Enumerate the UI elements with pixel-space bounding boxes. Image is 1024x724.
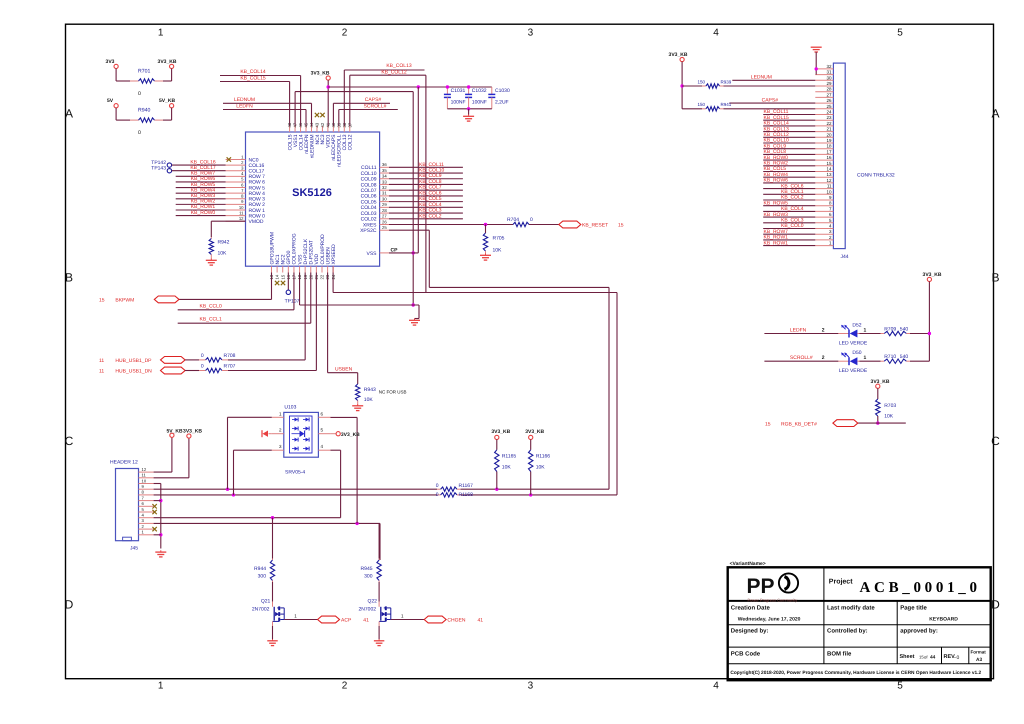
svg-text:KB_ROW5: KB_ROW5 — [764, 200, 789, 206]
svg-text:KB_COL9: KB_COL9 — [764, 143, 787, 149]
svg-text:34: 34 — [382, 174, 387, 179]
svg-text:Q21: Q21 — [261, 599, 271, 605]
svg-text:KB_COL4: KB_COL4 — [781, 206, 804, 212]
svg-text:4: 4 — [713, 681, 719, 692]
svg-text:BKPWM: BKPWM — [115, 297, 134, 303]
svg-text:17: 17 — [826, 149, 832, 154]
svg-text:R942: R942 — [218, 240, 230, 246]
svg-text:36: 36 — [382, 162, 387, 167]
svg-text:KB_ROW2: KB_ROW2 — [764, 161, 789, 167]
svg-text:14: 14 — [826, 167, 832, 172]
svg-text:5V_KB: 5V_KB — [159, 98, 176, 104]
svg-text:R701: R701 — [138, 69, 151, 75]
svg-text:26: 26 — [382, 219, 387, 224]
svg-text:1: 1 — [158, 681, 164, 692]
svg-text:11: 11 — [99, 358, 104, 364]
svg-text:R704: R704 — [507, 217, 519, 223]
svg-text:KB_ROW3: KB_ROW3 — [764, 212, 789, 218]
svg-text:35: 35 — [382, 168, 387, 173]
svg-text:5: 5 — [897, 681, 903, 692]
svg-text:B: B — [65, 271, 73, 285]
svg-text:Format: Format — [971, 650, 987, 655]
svg-text:5V: 5V — [107, 98, 114, 104]
svg-text:KB_COL8: KB_COL8 — [764, 149, 787, 155]
svg-text:SK5126: SK5126 — [292, 187, 332, 199]
svg-text:23: 23 — [826, 115, 832, 120]
svg-text:KB_ROW1: KB_ROW1 — [764, 240, 789, 246]
svg-text:ACP: ACP — [341, 618, 352, 624]
svg-text:0: 0 — [201, 364, 204, 370]
svg-text:25: 25 — [382, 225, 387, 230]
svg-text:R705: R705 — [493, 236, 505, 242]
svg-text:PCB Code: PCB Code — [731, 651, 761, 658]
svg-text:32: 32 — [826, 64, 832, 69]
svg-text:10K: 10K — [502, 465, 512, 471]
svg-text:ACB_0001_0: ACB_0001_0 — [860, 580, 981, 596]
svg-text:R943: R943 — [364, 387, 376, 393]
svg-text:TP143: TP143 — [151, 166, 166, 172]
svg-text:R939: R939 — [721, 79, 732, 84]
svg-text:12: 12 — [142, 467, 147, 472]
svg-text:J44: J44 — [841, 254, 849, 260]
svg-text:300: 300 — [364, 574, 373, 580]
svg-text:Controlled by:: Controlled by: — [827, 628, 868, 635]
svg-text:10: 10 — [142, 478, 147, 483]
svg-text:12: 12 — [826, 178, 832, 183]
svg-text:R703: R703 — [884, 403, 896, 409]
svg-text:Copyright(C) 2018-2020, Power: Copyright(C) 2018-2020, Power Progress C… — [730, 670, 981, 676]
svg-text:LEDFN: LEDFN — [790, 327, 807, 333]
svg-text:15: 15 — [99, 297, 105, 303]
svg-text:KB_COL5: KB_COL5 — [764, 166, 787, 172]
svg-text:CONN TRBLK32: CONN TRBLK32 — [857, 173, 895, 179]
svg-text:KB_COL14: KB_COL14 — [764, 121, 790, 127]
svg-text:KB_ROW4: KB_ROW4 — [764, 172, 789, 178]
svg-text:0: 0 — [138, 91, 141, 97]
svg-text:TP107: TP107 — [285, 299, 300, 305]
svg-text:540: 540 — [900, 326, 909, 332]
svg-text:RGB_KB_DET#: RGB_KB_DET# — [781, 421, 817, 427]
svg-text:10K: 10K — [218, 251, 228, 257]
svg-text:100NF: 100NF — [472, 99, 487, 105]
svg-text:R1166: R1166 — [536, 454, 551, 460]
svg-text:42: 42 — [320, 122, 325, 127]
svg-text:28: 28 — [382, 208, 387, 213]
svg-text:KEYBOARD: KEYBOARD — [929, 617, 958, 623]
svg-text:KB_COL13: KB_COL13 — [386, 63, 412, 69]
svg-text:HUB_USB1_DP: HUB_USB1_DP — [115, 358, 152, 364]
svg-text:3V3_KB: 3V3_KB — [525, 429, 544, 435]
svg-text:2: 2 — [342, 681, 348, 692]
svg-text:3V3: 3V3 — [106, 59, 115, 65]
svg-text:25: 25 — [826, 104, 832, 109]
svg-text:1: 1 — [864, 355, 867, 361]
svg-text:HUB_USB1_DN: HUB_USB1_DN — [115, 369, 152, 375]
svg-text:5: 5 — [897, 28, 903, 39]
svg-text:A3: A3 — [976, 657, 982, 663]
svg-text:R945: R945 — [361, 566, 373, 572]
svg-text:C: C — [991, 434, 1000, 448]
svg-text:3V3_KB: 3V3_KB — [183, 429, 202, 435]
svg-text:41: 41 — [478, 618, 484, 624]
svg-text:Power Progress Community: Power Progress Community — [748, 597, 798, 602]
svg-text:21: 21 — [826, 127, 832, 132]
svg-text:16: 16 — [826, 155, 832, 160]
svg-text:0: 0 — [530, 217, 533, 223]
svg-text:SCROLL#: SCROLL# — [364, 103, 387, 109]
svg-text:KB_CCL1: KB_CCL1 — [200, 317, 222, 323]
svg-text:15: 15 — [765, 421, 771, 427]
svg-text:20: 20 — [826, 132, 832, 137]
svg-text:10K: 10K — [884, 414, 894, 420]
svg-text:14: 14 — [275, 274, 280, 279]
svg-text:0: 0 — [138, 130, 141, 136]
svg-text:33: 33 — [382, 179, 387, 184]
svg-text:KB_ROW6: KB_ROW6 — [764, 178, 789, 184]
svg-text:3: 3 — [528, 28, 534, 39]
svg-text:R710: R710 — [884, 354, 896, 360]
svg-text:VSS: VSS — [366, 251, 377, 257]
svg-text:11: 11 — [239, 210, 244, 215]
svg-text:U103: U103 — [284, 405, 296, 411]
svg-text:KB_COL11: KB_COL11 — [764, 109, 789, 115]
svg-text:C1032: C1032 — [472, 88, 487, 94]
svg-text:R944: R944 — [254, 566, 266, 572]
svg-text:SRV05-4: SRV05-4 — [285, 470, 305, 476]
svg-text:NC FOR USB: NC FOR USB — [379, 390, 407, 395]
svg-text:150: 150 — [697, 79, 705, 84]
svg-text:150: 150 — [697, 102, 705, 107]
svg-text:LEDNUM: LEDNUM — [751, 75, 772, 81]
svg-text:C: C — [65, 434, 74, 448]
svg-text:Q22: Q22 — [367, 599, 377, 605]
svg-text:Last modify date: Last modify date — [827, 604, 875, 611]
svg-text:R707: R707 — [224, 364, 236, 370]
svg-text:27: 27 — [382, 214, 387, 219]
svg-text:4: 4 — [713, 28, 719, 39]
svg-text:CAPS#: CAPS# — [762, 97, 779, 103]
svg-text:29: 29 — [382, 202, 387, 207]
svg-text:31: 31 — [826, 70, 832, 75]
svg-text:KB_COL13: KB_COL13 — [764, 126, 790, 132]
svg-text:R1168: R1168 — [459, 492, 474, 498]
svg-text:A: A — [65, 107, 73, 121]
svg-text:1: 1 — [864, 327, 867, 333]
svg-text:2N7002: 2N7002 — [252, 607, 270, 613]
svg-text:Sheet: Sheet — [900, 654, 915, 660]
svg-text:3V3_KB: 3V3_KB — [341, 432, 360, 438]
svg-text:2N7002: 2N7002 — [358, 607, 376, 613]
svg-text:22: 22 — [826, 121, 832, 126]
svg-text:R941: R941 — [721, 102, 732, 107]
svg-text:28: 28 — [826, 87, 832, 92]
svg-text:1: 1 — [158, 28, 164, 39]
svg-text:30: 30 — [826, 75, 832, 80]
svg-text:R940: R940 — [138, 108, 151, 114]
svg-text:24: 24 — [331, 274, 336, 279]
svg-text:Designed by:: Designed by: — [731, 628, 769, 635]
svg-text:300: 300 — [258, 574, 267, 580]
svg-text:100NF: 100NF — [451, 99, 466, 105]
svg-text:3V3_KB: 3V3_KB — [491, 429, 510, 435]
svg-text:18: 18 — [826, 144, 832, 149]
svg-text:KB_COL12: KB_COL12 — [764, 132, 790, 138]
svg-text:KB_COL15: KB_COL15 — [240, 75, 266, 81]
svg-text:KB_ROW7: KB_ROW7 — [764, 229, 789, 235]
svg-text:LEDNUM: LEDNUM — [234, 97, 255, 103]
svg-text:43: 43 — [315, 122, 320, 127]
svg-text:30: 30 — [382, 196, 387, 201]
svg-text:R709: R709 — [884, 326, 896, 332]
svg-text:15: 15 — [826, 161, 832, 166]
svg-text:B: B — [991, 271, 999, 285]
svg-text:19: 19 — [826, 138, 832, 143]
svg-text:2: 2 — [342, 28, 348, 39]
svg-text:Creation Date: Creation Date — [731, 604, 771, 611]
svg-text:D: D — [991, 598, 1000, 612]
svg-text:12: 12 — [239, 216, 244, 221]
svg-text:KB_COL6: KB_COL6 — [781, 183, 804, 189]
svg-text:XPSEED: XPSEED — [331, 244, 337, 265]
svg-text:Project: Project — [829, 578, 853, 586]
svg-text:0: 0 — [436, 483, 439, 489]
svg-text:2,2UF: 2,2UF — [495, 99, 509, 105]
svg-text:3V3_KB: 3V3_KB — [311, 71, 330, 77]
svg-text:KB_COL1: KB_COL1 — [781, 189, 804, 195]
svg-text:3: 3 — [528, 681, 534, 692]
svg-text:D50: D50 — [852, 350, 861, 356]
svg-text:15: 15 — [280, 274, 285, 279]
svg-text:KB_ROW0: KB_ROW0 — [764, 155, 789, 161]
svg-text:LED VERDE: LED VERDE — [839, 341, 868, 347]
svg-text:Page title: Page title — [900, 604, 927, 611]
svg-text:REV.: REV. — [944, 654, 957, 660]
svg-text:LED VERDE: LED VERDE — [839, 368, 868, 374]
svg-text:USBEN: USBEN — [335, 367, 353, 373]
svg-text:XPS2C: XPS2C — [360, 228, 377, 234]
svg-text:R1167: R1167 — [459, 483, 474, 489]
svg-text:J45: J45 — [130, 546, 138, 552]
svg-text:Wednesday, June 17, 2020: Wednesday, June 17, 2020 — [738, 617, 801, 623]
svg-text:CHGEN: CHGEN — [447, 618, 465, 624]
svg-text:PP: PP — [747, 575, 775, 598]
svg-text:approved by:: approved by: — [900, 628, 938, 635]
svg-text:R1165: R1165 — [502, 454, 517, 460]
svg-text:KB_ROW1: KB_ROW1 — [764, 235, 789, 241]
svg-text:3V3_KB: 3V3_KB — [871, 379, 890, 385]
svg-text:KB_COL2: KB_COL2 — [419, 213, 442, 219]
svg-text:10: 10 — [826, 189, 832, 194]
svg-text:41: 41 — [363, 618, 369, 624]
svg-text:0: 0 — [201, 353, 204, 359]
svg-text:D52: D52 — [852, 322, 861, 328]
svg-text:COL12: COL12 — [348, 134, 354, 150]
svg-text:11: 11 — [827, 184, 832, 189]
svg-text:KB_ROW0: KB_ROW0 — [191, 210, 216, 216]
svg-text:10K: 10K — [536, 465, 546, 471]
svg-text:KB_COL12: KB_COL12 — [381, 69, 407, 75]
svg-text:0: 0 — [957, 655, 960, 661]
svg-text:C1031: C1031 — [451, 88, 466, 94]
svg-text:3V3_KB: 3V3_KB — [923, 272, 942, 278]
svg-text:SCROLL#: SCROLL# — [790, 355, 813, 361]
svg-text:KB_CCL0: KB_CCL0 — [200, 303, 222, 309]
svg-text:LEDFN: LEDFN — [236, 103, 253, 109]
svg-text:KB_COL3: KB_COL3 — [781, 218, 804, 224]
svg-text:A: A — [991, 107, 999, 121]
svg-text:15: 15 — [618, 223, 624, 229]
svg-text:540: 540 — [900, 354, 909, 360]
svg-text:HEADER 12: HEADER 12 — [110, 460, 138, 466]
svg-text:31: 31 — [382, 191, 387, 196]
svg-text:0: 0 — [436, 492, 439, 498]
svg-text:C1030: C1030 — [495, 88, 510, 94]
svg-text:<VariantName>: <VariantName> — [730, 561, 766, 567]
svg-text:29: 29 — [826, 81, 832, 86]
svg-text:27: 27 — [826, 92, 832, 97]
svg-text:24: 24 — [826, 110, 832, 115]
svg-text:10K: 10K — [364, 397, 374, 403]
svg-text:BOM file: BOM file — [827, 651, 852, 658]
svg-text:KB_COL2: KB_COL2 — [781, 195, 804, 201]
svg-text:5V_KB: 5V_KB — [166, 429, 183, 435]
svg-text:11: 11 — [99, 369, 104, 375]
svg-text:22: 22 — [320, 274, 325, 279]
svg-text:KB_COL15: KB_COL15 — [764, 115, 790, 121]
svg-text:11: 11 — [142, 473, 147, 478]
svg-text:2: 2 — [822, 327, 825, 333]
svg-text:KB_COL14: KB_COL14 — [240, 69, 266, 75]
svg-text:D: D — [65, 598, 74, 612]
svg-text:10K: 10K — [493, 248, 503, 254]
svg-text:3V3_KB: 3V3_KB — [669, 52, 688, 58]
svg-text:KB_COL0: KB_COL0 — [781, 223, 804, 229]
svg-text:13: 13 — [826, 172, 832, 177]
svg-text:2: 2 — [822, 355, 825, 361]
svg-text:44: 44 — [930, 655, 936, 661]
svg-text:26: 26 — [826, 98, 832, 103]
svg-text:CAPS#: CAPS# — [365, 97, 382, 103]
svg-text:KB_COL10: KB_COL10 — [764, 138, 790, 144]
svg-text:VMOD: VMOD — [249, 219, 264, 225]
svg-text:32: 32 — [382, 185, 387, 190]
svg-text:KB_RESET: KB_RESET — [582, 223, 608, 229]
svg-text:3V3_KB: 3V3_KB — [158, 59, 177, 65]
svg-text:R708: R708 — [224, 353, 236, 359]
svg-text:10: 10 — [239, 205, 244, 210]
